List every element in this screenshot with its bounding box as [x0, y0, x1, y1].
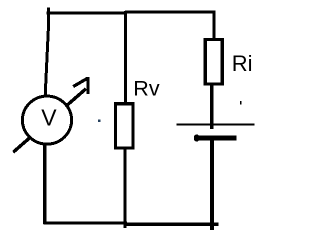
svg-text:Rv: Rv [133, 77, 160, 101]
svg-text:V: V [41, 105, 57, 131]
svg-text:Ri: Ri [232, 51, 253, 76]
